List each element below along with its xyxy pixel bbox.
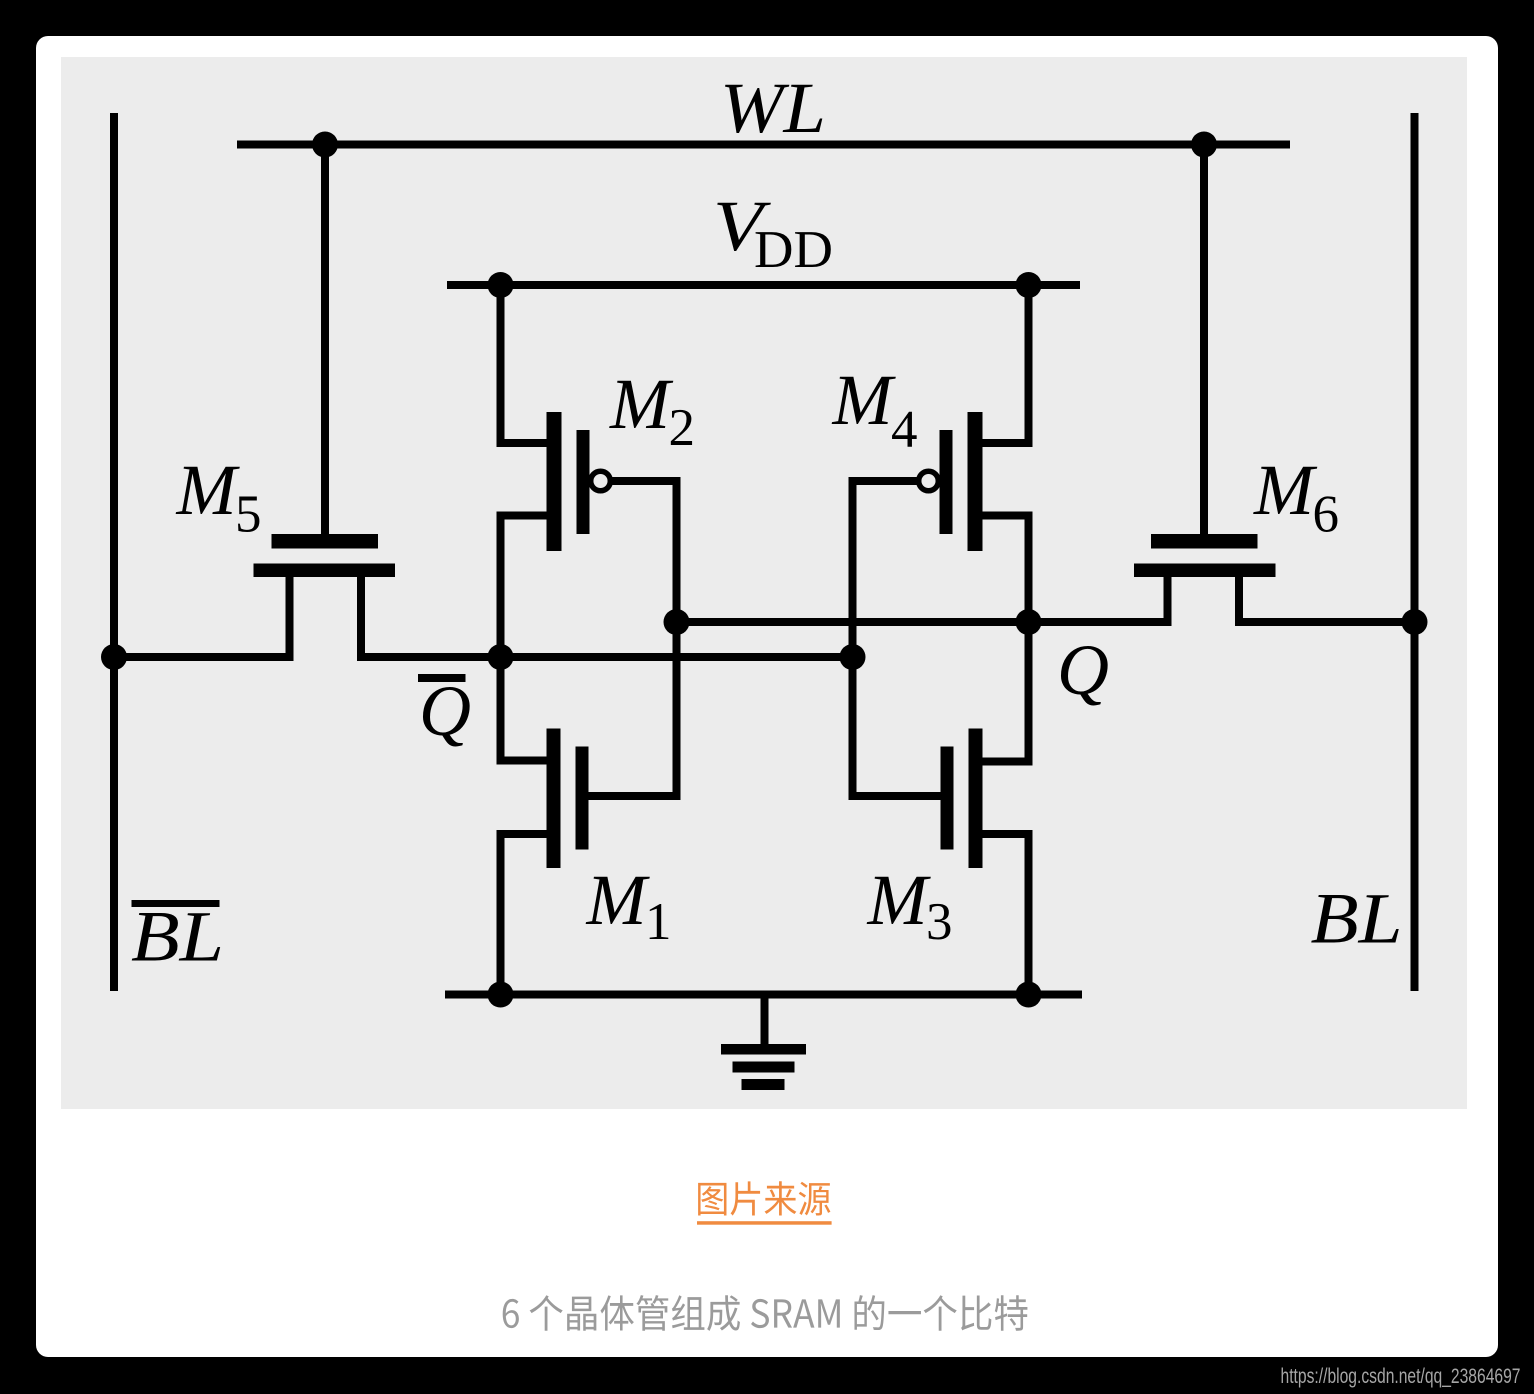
transistor M4 gate bubble <box>919 471 939 491</box>
wire M4 gate to cross-coupled node Qbar <box>853 481 919 622</box>
wire M1 drain from node Qbar <box>501 657 549 761</box>
wire M6 left stub to node Q <box>1164 575 1172 622</box>
junction on WL at M5 gate <box>312 132 338 158</box>
transistor M2 gate bubble <box>591 471 611 491</box>
wire BL bit line (right vertical) <box>1411 113 1419 991</box>
junction node Q at cross-couple <box>664 609 690 635</box>
transistor M3 NMOS driver (channel bar + gate bar) <box>941 729 983 869</box>
label M4 <box>832 360 918 459</box>
svg-text:4: 4 <box>891 401 918 459</box>
junction ground at M1 source <box>488 982 514 1008</box>
svg-text:https://blog.csdn.net/qq_23864: https://blog.csdn.net/qq_23864697 <box>1281 1364 1521 1388</box>
label WL <box>720 68 826 148</box>
svg-text:M: M <box>586 860 651 940</box>
wire M5 gate lead from WL <box>321 145 329 535</box>
wire WL word line (top horizontal) <box>237 141 1290 149</box>
wire M6 right stub <box>1235 575 1243 622</box>
label M6 <box>1253 450 1339 543</box>
wire M4 drain lead to node Q <box>981 516 1029 623</box>
svg-text:DD: DD <box>754 221 833 279</box>
junction node Qbar at M2 drain <box>488 644 514 670</box>
svg-text:BL: BL <box>1311 879 1403 959</box>
wire node Q down to M1 gate <box>586 622 677 796</box>
wire VDD rail <box>447 281 1080 289</box>
junction node Q at M4 drain <box>1016 609 1042 635</box>
transistor M1 NMOS driver (channel bar + gate bar) <box>547 729 589 869</box>
junction on VDD at M2 source <box>488 272 514 298</box>
wire M4 drain down to M3 drain <box>981 622 1029 762</box>
svg-text:Q: Q <box>1057 630 1109 710</box>
wire node Qbar down to M3 gate <box>853 622 944 796</box>
junction on WL at M6 gate <box>1191 132 1217 158</box>
junction ground at M3 source <box>1016 982 1042 1008</box>
transistor M4 PMOS (channel bar + gate bar) <box>940 412 983 551</box>
ground symbol <box>721 1044 806 1090</box>
junction node Q at BL <box>1402 609 1428 635</box>
wire M3 source to ground rail <box>981 834 1029 995</box>
image source link text (orange) <box>691 1176 911 1271</box>
svg-text:Q: Q <box>419 671 471 751</box>
svg-text:WL: WL <box>720 68 826 148</box>
wire M4 source lead from VDD <box>981 281 1029 443</box>
wire M5 left stub (source) <box>286 575 294 657</box>
label M3 <box>867 860 953 951</box>
wire M6 gate lead from WL <box>1200 145 1208 535</box>
svg-text:1: 1 <box>645 893 672 951</box>
wire ground stem <box>761 995 769 1045</box>
transistor M6 NMOS access (gate bar + channel bar) <box>1134 534 1276 577</box>
svg-text:M: M <box>1253 450 1318 530</box>
svg-text:2: 2 <box>669 399 696 457</box>
transistor M5 NMOS access (gate bar + channel bar) <box>254 534 396 577</box>
wire M2 drain lead to node Qbar <box>501 516 549 658</box>
label BLbar <box>131 897 224 977</box>
wire node Qbar horizontal <box>357 653 853 661</box>
svg-text:BL: BL <box>131 897 224 977</box>
watermark <box>1270 1356 1530 1392</box>
caption text <box>496 1290 1106 1380</box>
wire M2 source lead from VDD <box>501 281 549 443</box>
label VDD <box>713 186 833 279</box>
wire M1 source to ground rail <box>501 834 549 995</box>
svg-text:3: 3 <box>926 893 953 951</box>
svg-text:M: M <box>832 360 897 440</box>
wire node Q to BL <box>1235 618 1415 626</box>
label node Qbar <box>418 671 471 751</box>
label M2 <box>609 364 695 457</box>
label node Q <box>1057 630 1109 710</box>
junction node Qbar at cross-couple <box>840 644 866 670</box>
svg-text:M: M <box>609 364 674 444</box>
wire M5 right stub (drain) <box>357 575 365 657</box>
wire M2 gate to cross-coupled node Q <box>611 481 677 622</box>
wire BLbar bit line (left vertical) <box>110 113 118 991</box>
wire node Q horizontal <box>677 618 1172 626</box>
label M1 <box>586 860 672 951</box>
svg-text:5: 5 <box>235 485 262 543</box>
transistor M2 PMOS (channel bar + gate bar) <box>547 412 590 551</box>
wire ground rail <box>445 991 1082 999</box>
label BL <box>1311 879 1403 959</box>
svg-text:M: M <box>867 860 932 940</box>
svg-text:M: M <box>176 450 241 530</box>
label M5 <box>176 450 262 543</box>
wire node Qbar to M5 left stub <box>114 653 294 661</box>
junction node Qbar at BLbar <box>101 644 127 670</box>
junction on VDD at M4 source <box>1016 272 1042 298</box>
svg-text:6: 6 <box>1313 485 1340 543</box>
